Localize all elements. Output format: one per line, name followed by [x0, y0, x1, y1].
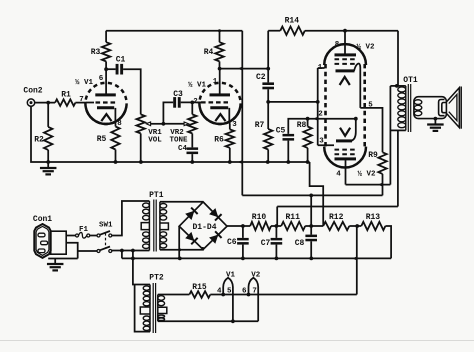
- tube V1b heater: [215, 114, 225, 121]
- wire V2 pin1-2-3 vertical: [317, 68, 319, 145]
- node row1 Va junction: [309, 194, 313, 198]
- capacitor C2: [267, 31, 269, 83]
- svg-text:R3: R3: [91, 48, 101, 57]
- svg-text:C8: C8: [295, 239, 305, 248]
- wire bridge minus to 0V bus: [178, 226, 180, 258]
- wire node up to C3: [163, 102, 173, 123]
- resistor R6: [226, 129, 234, 147]
- wire input jack to R1: [35, 102, 55, 104]
- capacitor C3: [173, 97, 176, 108]
- node C6 top: [241, 224, 245, 228]
- tube V2a cathode with hook: [336, 69, 355, 72]
- capacitor C1: [106, 68, 116, 70]
- resistor R14: [280, 27, 305, 35]
- transformer PT1 core: [153, 200, 155, 252]
- wire C5 top jog: [288, 119, 307, 134]
- junction arrow heater riser at 0V bus: [352, 256, 357, 260]
- resistor R11: [281, 222, 305, 230]
- transformer OT1 primary winding: [405, 86, 407, 130]
- capacitor C6: [242, 226, 244, 238]
- tube V1a grid: [86, 102, 94, 104]
- wire C1 to VR1 top: [123, 69, 141, 114]
- wire V1a plate lead to R3 node: [105, 69, 107, 93]
- wire PT1 secondary bottom to bridge: [160, 247, 203, 250]
- wire R1 to V1 grid pin7: [75, 102, 86, 104]
- svg-text:R6: R6: [214, 136, 224, 145]
- svg-text:TONE: TONE: [169, 137, 188, 145]
- node mains junction dots: [120, 249, 124, 253]
- svg-text:½ V2: ½ V2: [356, 43, 375, 51]
- svg-text:C3: C3: [173, 90, 183, 99]
- tube V2b heater: [340, 128, 350, 136]
- node R12 R13 junction: [355, 224, 359, 228]
- diode D4: [209, 235, 218, 244]
- rectifier bridge D1-D4 diamond: [179, 202, 227, 250]
- wire jack down to ground bus: [31, 106, 48, 162]
- svg-text:V2: V2: [251, 272, 261, 280]
- resistor R5: [115, 124, 117, 127]
- node speaker ground junction: [434, 117, 438, 121]
- resistor R3: [105, 31, 107, 43]
- svg-text:R13: R13: [366, 213, 381, 222]
- wire row1 ground row: [242, 194, 382, 196]
- svg-text:PT2: PT2: [149, 274, 164, 283]
- diode D1: [185, 211, 194, 220]
- wire Con1 earth: [48, 258, 77, 260]
- junction arrow plate row at main vertical: [238, 67, 243, 71]
- node R4 plate junction: [218, 67, 222, 71]
- connector Con1 IEC inlet body: [34, 224, 50, 258]
- wire SW1 top to PT1 primary top: [112, 201, 150, 236]
- tube V2a screen grids dashed: [335, 58, 358, 60]
- node R8 C5 top junction: [306, 117, 310, 121]
- node pin2 row to bottom cathode: [354, 117, 358, 121]
- svg-text:OT1: OT1: [403, 76, 418, 85]
- svg-text:8: 8: [335, 41, 340, 49]
- wire OT1 left flank vertical: [389, 86, 391, 185]
- svg-text:7: 7: [79, 96, 84, 104]
- resistor R4: [219, 31, 221, 43]
- svg-text:R11: R11: [285, 213, 300, 222]
- speaker cabinet box with secondary winding: [414, 97, 447, 119]
- wire R11 R12 link: [305, 225, 323, 227]
- switch SW1 gang link dashed: [105, 233, 107, 249]
- junction arrow pin2 row: [313, 117, 318, 121]
- transformer PT1 primary winding: [148, 201, 150, 251]
- svg-text:C4: C4: [178, 145, 188, 153]
- wire pin5 row to R9 vertical: [360, 108, 382, 152]
- tube V2b screen grids dashed: [335, 149, 358, 151]
- junction arrow ground bus at main vertical: [238, 160, 243, 164]
- wire row2 drop to C7 node: [276, 207, 278, 227]
- wire pin2 row: [308, 118, 356, 120]
- wire row2 plate return row: [277, 206, 398, 208]
- svg-text:R14: R14: [285, 17, 300, 26]
- wire PT2 primary left flank: [135, 285, 150, 332]
- node heater pin4: [221, 293, 225, 297]
- wire long vertical from rail to row1: [241, 31, 243, 196]
- wire PT2 secondary top to R15: [158, 294, 190, 296]
- svg-text:4: 4: [336, 171, 341, 179]
- capacitor C5: [283, 134, 295, 137]
- wire R12 R13 link: [349, 225, 361, 227]
- node OT1 primary top: [395, 84, 399, 88]
- switch SW1 bottom pole: [97, 250, 100, 253]
- node C7 top: [275, 224, 279, 228]
- resistor R15: [189, 291, 210, 298]
- ground symbol preamp: [47, 162, 49, 168]
- wire PT2 secondary bottom to heater returns: [158, 320, 258, 322]
- resistor R12: [323, 222, 349, 230]
- wire bridge plus to R10: [227, 225, 250, 227]
- wire wiper node to VR2 wiper: [163, 123, 184, 125]
- svg-text:5: 5: [227, 288, 232, 296]
- wire PT2 feed down: [133, 251, 150, 285]
- tube V1b plate: [210, 93, 231, 96]
- capacitor C7: [275, 226, 277, 238]
- svg-text:R5: R5: [97, 135, 107, 144]
- wire 0V bus: [122, 257, 391, 259]
- svg-text:6: 6: [242, 288, 247, 296]
- svg-text:6: 6: [99, 75, 104, 83]
- wire Con1 live to fuse: [66, 235, 75, 237]
- svg-text:½ V1: ½ V1: [75, 79, 94, 87]
- wire V2 pin1 stub: [318, 67, 325, 69]
- VR1 wiper arrow: [146, 122, 150, 126]
- tube V1a heater: [101, 114, 111, 121]
- ground symbol speaker: [434, 119, 436, 125]
- wire OT1 primary bottom to row2: [397, 130, 399, 206]
- resistor R10: [250, 222, 271, 230]
- resistor R9: [378, 152, 386, 174]
- wire C3 to V1b grid: [181, 101, 200, 103]
- wire Va vertical down to C8 node: [310, 195, 312, 226]
- ground bus preamp: [48, 161, 309, 163]
- tube V1b cathode: [210, 106, 228, 109]
- wire PT1 secondary top to bridge: [160, 201, 203, 203]
- fuse F1: [76, 234, 79, 237]
- svg-text:SW1: SW1: [99, 222, 113, 230]
- wire VR1 wiper to node: [151, 123, 164, 125]
- svg-text:1: 1: [318, 64, 323, 72]
- svg-text:Con2: Con2: [23, 87, 42, 96]
- svg-text:Con1: Con1: [33, 215, 52, 224]
- node heater pin6: [247, 293, 251, 297]
- wire grid node to pin1 vertical: [268, 101, 318, 103]
- capacitor C4: [191, 133, 193, 147]
- potentiometer VR1 volume: [137, 114, 145, 133]
- tube V1a cathode: [97, 106, 114, 109]
- node pin1 vertical junction: [316, 100, 320, 104]
- svg-text:R15: R15: [192, 283, 207, 292]
- resistor R7: [267, 102, 269, 129]
- tube V2 envelope top arc: [324, 44, 366, 65]
- tube V2 envelope dashed side walls: [324, 64, 327, 148]
- svg-text:R12: R12: [329, 213, 344, 222]
- svg-text:2: 2: [193, 98, 198, 106]
- svg-text:C6: C6: [227, 238, 237, 247]
- tube V1 first half envelope: [85, 83, 126, 124]
- tube V1 second half envelope: [199, 83, 240, 124]
- wire neutral down to 0V bus corner: [121, 251, 123, 259]
- svg-text:C5: C5: [276, 127, 286, 136]
- wire OT1 primary top lead: [390, 85, 405, 87]
- connector Con2 input jack: [27, 99, 34, 106]
- ground symbol mains earth: [54, 259, 56, 265]
- transformer PT2 primary winding: [149, 285, 151, 332]
- wire R15 to heater pins: [210, 294, 356, 296]
- wire V1b plate lead up: [219, 69, 221, 94]
- wire B+ top rail left segment: [106, 30, 242, 32]
- canvas bottom edge: [0, 340, 474, 342]
- svg-text:R2: R2: [34, 136, 44, 145]
- svg-text:V1: V1: [226, 272, 236, 280]
- node VR2 top junction: [190, 101, 194, 105]
- junction arrow pin4 row at R9 vertical: [378, 183, 383, 187]
- wire SW1 bottom to PT1 primary bottom: [112, 250, 150, 252]
- wire fuse to switch: [90, 235, 97, 237]
- svg-text:R1: R1: [61, 91, 71, 100]
- wire pin4 row to OT1 left flank: [346, 184, 391, 186]
- switch SW1 top pole: [97, 234, 100, 237]
- wire OT1 primary bottom lead: [391, 129, 406, 131]
- diode D3: [185, 232, 194, 241]
- tube V2 heater arch: [249, 278, 259, 322]
- svg-text:R9: R9: [368, 151, 378, 160]
- tube V2a plate and pin8 lead: [335, 53, 357, 56]
- wire B+ rail down to OT1: [397, 31, 399, 86]
- node junction R4 top: [218, 29, 221, 32]
- wire divider to heater riser: [356, 226, 358, 295]
- resistor R2: [47, 103, 49, 127]
- speaker driver magnet: [439, 100, 445, 116]
- speaker cone horn: [447, 88, 460, 128]
- tube V2 envelope bottom arc: [324, 147, 366, 168]
- tube V2a heater: [340, 77, 350, 85]
- wire R13 right end to 0V bus: [385, 226, 391, 258]
- wire R10 R11 link: [271, 225, 281, 227]
- tube V2b plate and pin4 lead: [335, 157, 357, 160]
- node secondary bottom junction: [178, 248, 181, 251]
- svg-text:VOL: VOL: [148, 137, 162, 145]
- resistor R8: [307, 119, 309, 127]
- wire C2 bottom to grid node: [267, 89, 269, 102]
- transformer PT1 secondary winding: [159, 202, 161, 250]
- diode D2: [209, 208, 218, 217]
- node input R2 junction: [46, 101, 50, 105]
- svg-text:R10: R10: [252, 213, 267, 222]
- svg-text:C2: C2: [256, 73, 266, 82]
- svg-text:½ V2: ½ V2: [357, 171, 376, 179]
- svg-text:7: 7: [252, 288, 257, 296]
- transformer PT2 secondary winding: [157, 295, 159, 322]
- resistor R1: [55, 99, 75, 106]
- transformer OT1 core: [407, 84, 409, 132]
- node heater pin5 return: [231, 319, 235, 323]
- svg-text:4: 4: [217, 288, 222, 296]
- svg-text:2: 2: [318, 110, 323, 118]
- tube V2b cathode with hook: [336, 139, 352, 142]
- transformer PT2 core: [152, 283, 154, 333]
- node dots on 0V bus: [131, 257, 135, 261]
- svg-text:R4: R4: [204, 48, 214, 57]
- node R3 C1 plate junction: [104, 67, 108, 71]
- svg-text:R7: R7: [255, 121, 265, 130]
- resistor R13: [361, 222, 385, 230]
- node junction V2 pin8 on rail: [343, 29, 347, 33]
- VR2 wiper arrow: [184, 122, 188, 126]
- wire R8 ground jog to Vb: [310, 162, 324, 226]
- node wiper junction: [162, 122, 166, 126]
- wire plate row to C2: [220, 68, 269, 70]
- tube V1a plate: [95, 93, 116, 96]
- wire neutral to SW1 bottom: [78, 250, 97, 252]
- node dots on preamp ground bus: [46, 160, 50, 164]
- svg-text:F1: F1: [79, 226, 89, 234]
- svg-text:C1: C1: [116, 56, 126, 65]
- wire Con1 neutral jog: [66, 243, 78, 259]
- svg-text:C7: C7: [261, 239, 271, 248]
- svg-text:R8: R8: [297, 121, 307, 130]
- svg-text:½ V1: ½ V1: [188, 81, 207, 89]
- svg-text:D1-D4: D1-D4: [192, 223, 216, 232]
- svg-text:3: 3: [232, 121, 237, 129]
- capacitor C8: [310, 226, 312, 235]
- node C8 top: [309, 224, 313, 228]
- svg-text:1: 1: [213, 78, 218, 86]
- tube V1b grid: [201, 101, 228, 103]
- tube V1 heater arch: [223, 278, 233, 322]
- wire pin3 stub: [318, 144, 334, 146]
- wire B+ top rail right segment: [268, 30, 280, 32]
- potentiometer VR2 tone: [191, 102, 193, 114]
- node C2 R7 junction: [266, 100, 270, 104]
- svg-text:PT1: PT1: [149, 191, 164, 200]
